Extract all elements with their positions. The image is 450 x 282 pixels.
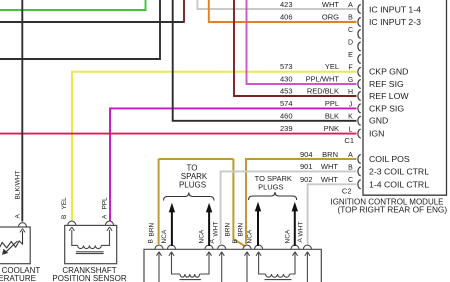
svg-text:J: J (349, 101, 353, 108)
coil 2-3 primary winding symbol (159, 253, 222, 282)
wire BLK horizontal lower (cut off left) (0, 0, 160, 59)
label A WHT left coil (209, 222, 220, 244)
svg-text:K: K (348, 114, 353, 121)
coolant sensor caption (0, 266, 40, 282)
wire 902 WHT to pin C C2 and right coil pin A (308, 184, 357, 244)
svg-text:REF SIG: REF SIG (369, 79, 404, 89)
wire 904 BRN branch to left coil pin B (159, 159, 246, 247)
svg-text:C: C (348, 27, 353, 34)
svg-text:NCA: NCA (199, 229, 206, 243)
brace left (164, 193, 215, 201)
crank sensor pin bubble B (68, 221, 76, 225)
wire number labels (280, 0, 313, 184)
svg-text:574: 574 (280, 99, 293, 108)
svg-text:ORG: ORG (322, 13, 339, 22)
to spark plugs caption right (255, 174, 292, 192)
svg-text:REF LOW: REF LOW (369, 91, 409, 101)
module name caption (330, 197, 447, 214)
wire 430 PPL/WHT to pin G (247, 0, 357, 84)
coolant sensor pin bubble A (18, 223, 26, 227)
svg-text:WHT: WHT (321, 175, 338, 184)
svg-text:453: 453 (280, 87, 293, 96)
svg-text:BRN: BRN (238, 222, 245, 236)
svg-text:A: A (102, 214, 109, 219)
svg-text:NCA: NCA (161, 229, 168, 243)
crank sensor coil symbol (72, 230, 110, 254)
wire 574 PPL to pin J and crank sensor pin A (110, 108, 357, 221)
svg-text:TEMPERATURE: TEMPERATURE (0, 274, 36, 282)
svg-text:IC INPUT 1-4: IC INPUT 1-4 (369, 5, 421, 15)
svg-text:E: E (348, 52, 353, 59)
wire BLK/WHT coolant sensor pin A (cut off top) (21, 0, 23, 222)
svg-text:CKP SIG: CKP SIG (369, 104, 404, 114)
svg-text:C2: C2 (342, 186, 352, 195)
svg-text:C: C (348, 177, 353, 184)
coolant temperature sensor box (0, 227, 30, 264)
svg-text:PPL/WHT: PPL/WHT (306, 75, 340, 84)
svg-text:(TOP RIGHT REAR OF ENG): (TOP RIGHT REAR OF ENG) (337, 204, 447, 214)
svg-text:G: G (348, 77, 353, 84)
svg-text:A: A (297, 238, 304, 243)
wire color labels (306, 0, 340, 184)
svg-text:BRN: BRN (225, 222, 232, 236)
svg-text:430: 430 (280, 75, 293, 84)
svg-text:A: A (348, 152, 353, 159)
svg-text:BLK: BLK (325, 112, 339, 121)
svg-text:904: 904 (300, 150, 313, 159)
svg-text:239: 239 (280, 124, 293, 133)
coil pin bubbles (155, 245, 312, 249)
spark plug arrow left coil pin 2 (206, 203, 212, 246)
svg-text:C1: C1 (344, 136, 354, 145)
wire BLK horizontal upper (cut off left) (0, 21, 184, 23)
svg-text:WHT: WHT (298, 222, 305, 237)
svg-text:423: 423 (280, 0, 293, 9)
svg-text:BRN: BRN (322, 150, 338, 159)
svg-text:IGN: IGN (369, 129, 384, 139)
wire GRN (cut off left/top) (0, 0, 146, 10)
module pin function labels (369, 5, 429, 190)
svg-text:BLK/WHT: BLK/WHT (15, 171, 22, 200)
coolant sensor pin tip (20, 229, 25, 233)
pin letters C1 (348, 2, 353, 134)
label A PPL (102, 197, 109, 219)
svg-text:CKP GND: CKP GND (369, 67, 408, 77)
svg-text:PPL: PPL (325, 99, 339, 108)
svg-text:YEL: YEL (61, 197, 68, 210)
svg-text:A: A (15, 214, 22, 219)
svg-text:WHT: WHT (321, 162, 338, 171)
spark plug arrow right coil pin 1 (255, 202, 261, 246)
crank sensor pin bubble A (105, 221, 113, 225)
svg-text:NCA: NCA (247, 229, 254, 243)
svg-text:POSITION SENSOR: POSITION SENSOR (52, 274, 126, 282)
svg-text:YEL: YEL (325, 62, 339, 71)
spark plug arrow left coil pin 1 (169, 203, 175, 246)
connector C1 pin arcs A-L (358, 5, 361, 138)
svg-text:B: B (232, 239, 239, 243)
svg-text:D: D (348, 39, 353, 46)
svg-text:902: 902 (300, 175, 313, 184)
svg-text:PLUGS: PLUGS (179, 181, 206, 190)
svg-text:COIL POS: COIL POS (369, 154, 410, 164)
coil pin tips (156, 252, 310, 256)
wire 904 BRN to pin A C2 and right coil pin B (246, 159, 357, 244)
svg-text:PNK: PNK (324, 124, 339, 133)
ignition control module box (363, 0, 447, 195)
svg-text:PPL: PPL (102, 197, 109, 210)
label B BRN left coil (148, 222, 156, 243)
crank sensor pin tips (69, 227, 112, 231)
wire 406 ORG to pin B (209, 0, 357, 22)
wire 460 BLK to pin K (173, 0, 357, 121)
svg-text:A: A (348, 2, 353, 9)
svg-text:RED/BLK: RED/BLK (307, 87, 339, 96)
svg-text:WHT: WHT (213, 222, 220, 237)
svg-text:406: 406 (280, 13, 293, 22)
svg-text:B: B (61, 215, 68, 219)
svg-text:B: B (348, 14, 353, 21)
wire 423 WHT to pin A (197, 0, 356, 9)
crankshaft position sensor box (65, 225, 117, 263)
svg-text:1-4 COIL CTRL: 1-4 COIL CTRL (369, 180, 429, 190)
ignition coils box (144, 249, 321, 282)
wire 573 YEL to pin F and crank sensor pin B (72, 72, 357, 221)
label B YEL (61, 197, 68, 219)
svg-text:NCA: NCA (285, 229, 292, 243)
pin letters C2 (348, 152, 353, 184)
coolant thermistor symbol (0, 231, 23, 254)
crank sensor caption (52, 266, 126, 282)
svg-text:L: L (349, 127, 353, 134)
brace right (249, 192, 297, 200)
wire DK RED vertical at x=184 (183, 0, 185, 23)
to spark plugs caption left (179, 164, 208, 190)
label A WHT right coil (297, 222, 305, 243)
svg-text:GND: GND (369, 116, 388, 126)
svg-text:B: B (348, 164, 353, 171)
svg-text:PLUGS: PLUGS (258, 183, 283, 192)
svg-text:2-3 COIL CTRL: 2-3 COIL CTRL (369, 167, 429, 177)
spark plug arrow right coil pin 2 (292, 202, 298, 246)
wire 453 RED/BLK to pin H (234, 0, 357, 96)
svg-text:B: B (148, 239, 155, 243)
svg-text:A: A (209, 239, 216, 244)
wire 239 PNK to pin L (cut off left) (0, 133, 357, 135)
svg-text:573: 573 (280, 62, 293, 71)
svg-text:460: 460 (280, 112, 293, 121)
coil 1-4 primary winding symbol (247, 253, 307, 282)
svg-text:H: H (348, 89, 353, 96)
svg-text:F: F (348, 65, 352, 72)
wire 901 WHT to pin B C2 and left coil pin A (221, 171, 357, 244)
label A BLK/WHT (15, 171, 22, 219)
svg-text:WHT: WHT (322, 0, 339, 9)
svg-text:BRN: BRN (149, 222, 156, 236)
connector C2 pin arcs A-C (358, 155, 361, 189)
svg-text:IC INPUT 2-3: IC INPUT 2-3 (369, 17, 421, 27)
svg-text:901: 901 (300, 162, 313, 171)
